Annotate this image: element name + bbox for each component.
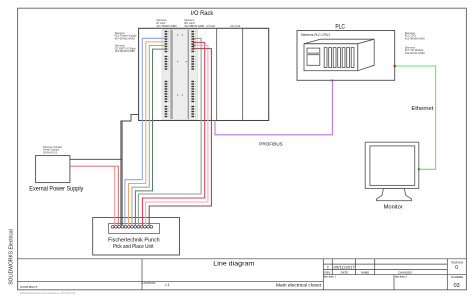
svg-text:last data 1: last data 1 xyxy=(324,275,337,279)
monitor label xyxy=(384,204,403,210)
svg-text:CHANGES: CHANGES xyxy=(398,270,412,274)
AI card slot label xyxy=(206,24,215,28)
fine print under border xyxy=(20,292,75,295)
PLC enclosure xyxy=(297,23,395,80)
svg-text:153-2BA00-0XB0: 153-2BA00-0XB0 xyxy=(115,49,136,53)
wire teal DI xyxy=(135,49,165,225)
wire maroon DO xyxy=(149,49,211,226)
svg-text:LOCATION:: LOCATION: xyxy=(143,282,157,285)
svg-text:Pick and Place Unit: Pick and Place Unit xyxy=(113,244,154,250)
wire orange DI xyxy=(129,42,166,225)
wire blue DI xyxy=(125,38,165,225)
svg-text:Exernal Power Supply: Exernal Power Supply xyxy=(29,185,84,192)
sidebar label SOLIDWORKS Electrical xyxy=(9,229,15,285)
svg-text:SOLIDWORKS Electrical: SOLIDWORKS Electrical xyxy=(9,229,15,285)
wire green DO xyxy=(138,38,201,225)
title block xyxy=(18,259,467,290)
title block texts xyxy=(20,260,463,289)
PLC power supply label xyxy=(115,31,137,40)
svg-text:Line diagram: Line diagram xyxy=(213,260,254,267)
wire red PSU pair xyxy=(70,166,118,225)
wire black PSU to rack xyxy=(70,114,139,225)
wire Ethernet green xyxy=(394,65,436,170)
rack backplane with DI/DO cards xyxy=(162,29,198,119)
svg-text:AI Card: AI Card xyxy=(206,24,215,28)
svg-text:412-3H506-0A00: 412-3H506-0A00 xyxy=(405,36,425,40)
svg-text:Ethernet: Ethernet xyxy=(411,106,433,112)
svg-text:I/O Rack: I/O Rack xyxy=(191,10,214,17)
monitor xyxy=(365,142,419,201)
I/O rack interface label xyxy=(115,44,137,53)
PLC CPU 3D symbol xyxy=(304,39,374,70)
DO junction dots xyxy=(193,38,195,49)
svg-text:Monitor: Monitor xyxy=(384,204,403,210)
svg-text:PROFIBUS: PROFIBUS xyxy=(259,142,283,147)
Ethernet label xyxy=(411,106,433,112)
svg-text:SCHEME: SCHEME xyxy=(451,275,463,279)
svg-text:321-7BH00-0AB0: 321-7BH00-0AB0 xyxy=(156,24,177,28)
power supply label xyxy=(43,145,62,154)
DO card terminal strip xyxy=(191,31,195,117)
DO card label xyxy=(184,18,205,28)
wire crimson DO xyxy=(142,42,204,225)
connector circles xyxy=(111,225,152,228)
svg-text:322-8BF00-0AB0: 322-8BF00-0AB0 xyxy=(184,24,205,28)
svg-text:CONTRACT:: CONTRACT: xyxy=(20,285,38,289)
wire PROFIBUS purple xyxy=(215,80,333,135)
DI card terminal strip xyxy=(165,31,169,117)
svg-text:Fischertechnik Punch: Fischertechnik Punch xyxy=(108,238,160,244)
svg-text:REVISION: REVISION xyxy=(451,260,463,264)
svg-text:AO Card: AO Card xyxy=(230,24,241,28)
svg-text:Siemens PLC CPU1: Siemens PLC CPU1 xyxy=(301,33,331,37)
AO card slot label xyxy=(230,24,241,28)
PLC CP module label xyxy=(405,46,426,55)
svg-text:DATE: DATE xyxy=(341,270,348,274)
Fischertechnik unit box xyxy=(93,218,180,256)
wire gray DI xyxy=(132,46,165,226)
svg-text:443-1EX11-0XE0: 443-1EX11-0XE0 xyxy=(405,51,426,55)
svg-text:Solidworks Electrical Schemati: Solidworks Electrical Schematic edition … xyxy=(20,292,75,295)
svg-text:09/11/2017: 09/11/2017 xyxy=(334,265,356,269)
svg-text:0: 0 xyxy=(327,265,329,269)
svg-text:REV.: REV. xyxy=(325,270,331,274)
svg-text:L1: L1 xyxy=(165,283,169,287)
svg-text:last data 1: last data 1 xyxy=(395,275,408,279)
svg-text:Main electrical closet: Main electrical closet xyxy=(276,283,322,288)
PLC CPU label xyxy=(405,31,425,40)
svg-text:03: 03 xyxy=(454,283,460,289)
wire light pink DO xyxy=(146,46,208,226)
external power supply box xyxy=(29,156,84,193)
svg-text:NAME: NAME xyxy=(361,270,369,274)
DI card label xyxy=(156,18,177,28)
PROFIBUS label xyxy=(259,142,283,147)
I/O rack enclosure xyxy=(139,10,269,120)
svg-text:PLC: PLC xyxy=(335,23,345,30)
svg-text:29-06-03-10: 29-06-03-10 xyxy=(43,150,58,154)
svg-text:0: 0 xyxy=(455,265,458,271)
svg-text:407-0KA02-0AA0: 407-0KA02-0AA0 xyxy=(115,36,136,40)
